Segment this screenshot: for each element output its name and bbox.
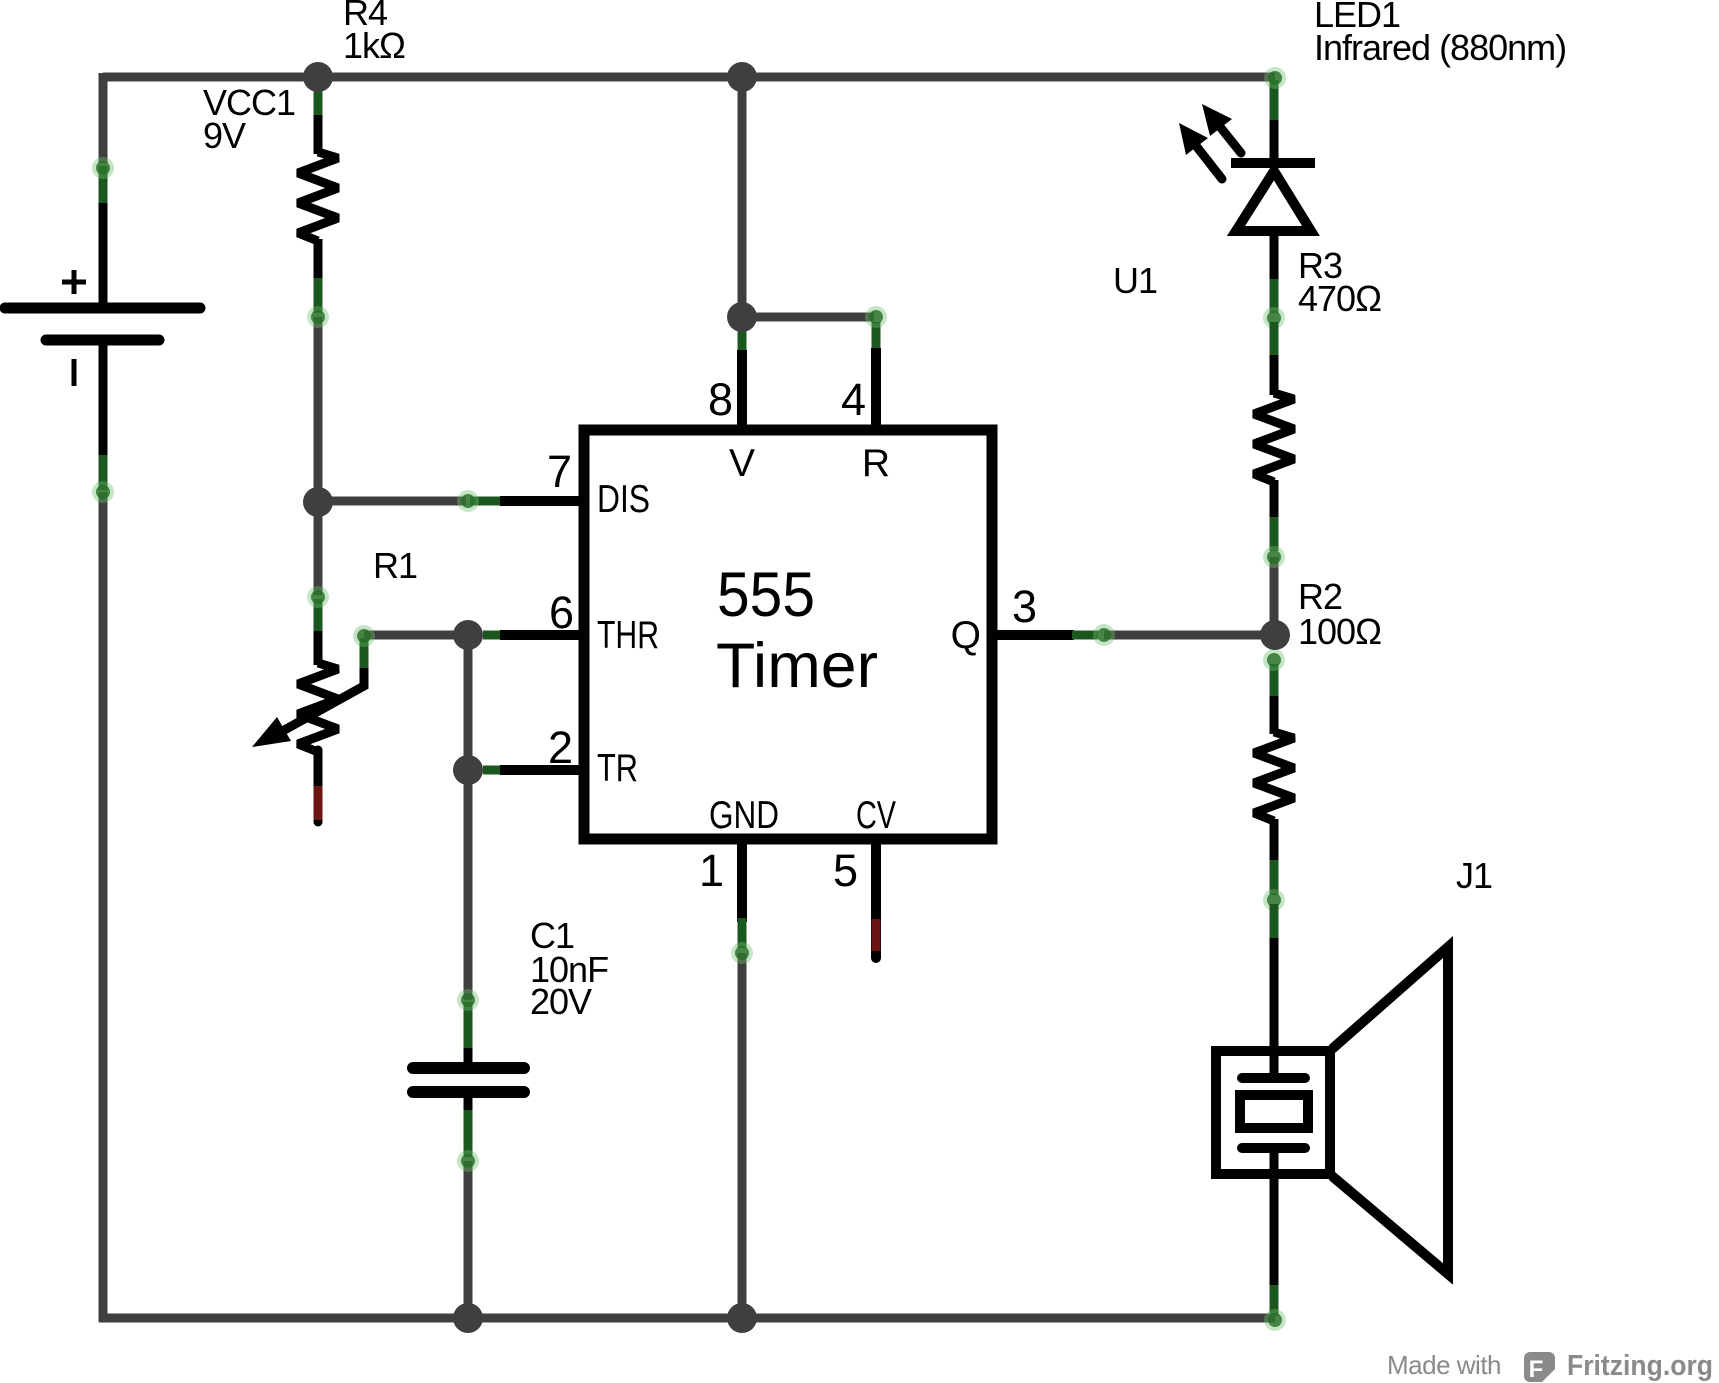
node: R2 bottom pin — [1263, 889, 1285, 911]
svg-text:U1: U1 — [1113, 260, 1157, 301]
speaker J1 (piezo buzzer) — [1216, 904, 1448, 1316]
svg-text:8: 8 — [708, 374, 733, 425]
wire: top power rail — [103, 73, 1275, 82]
junction: top rail / pin 8 branch — [727, 62, 757, 92]
wire: bottom ground rail — [99, 1314, 1275, 1323]
svg-text:6: 6 — [549, 587, 574, 638]
svg-text:1: 1 — [699, 845, 724, 896]
wire: Q pin 3 to R2 junction — [1104, 631, 1275, 640]
svg-text:Q: Q — [951, 614, 981, 657]
wire: R4 bottom to DIS junction — [314, 317, 323, 502]
node: R1 wiper pin — [353, 625, 375, 647]
node: LED1 top pin at rail corner — [1264, 67, 1286, 89]
label R2 100Ω — [1298, 576, 1381, 652]
resistor R4 — [298, 88, 338, 313]
wire: node to pin 4 — [742, 313, 874, 322]
svg-text:J1: J1 — [1456, 855, 1492, 896]
node: R3 bottom pin — [1263, 546, 1285, 568]
svg-text:CV: CV — [856, 794, 896, 837]
pin 8 V — [708, 330, 755, 485]
resistor R2 — [1254, 664, 1294, 895]
pin 1 GND — [699, 794, 779, 948]
wire: THR junction down to TR junction — [464, 635, 473, 770]
label C1 10nF 20V — [530, 915, 608, 1022]
svg-text:4: 4 — [841, 374, 866, 425]
node: C1 top pin — [457, 989, 479, 1011]
svg-text:R: R — [862, 442, 890, 485]
node: C1 bottom pin — [457, 1150, 479, 1172]
capacitor C1 — [413, 1002, 524, 1157]
svg-text:DIS: DIS — [597, 478, 650, 521]
wire: TR junction down to C1 top — [464, 770, 473, 1000]
svg-text:7: 7 — [547, 446, 572, 497]
pin 6 THR — [483, 587, 659, 657]
potentiometer R1 (rheostat) — [252, 599, 364, 822]
node: pin 4 wire end — [865, 306, 887, 328]
svg-text:Made with: Made with — [1387, 1350, 1501, 1380]
pin 3 Q — [951, 581, 1098, 657]
label J1 — [1456, 855, 1492, 896]
IC U1: 555 timer body — [584, 430, 992, 839]
svg-text:100Ω: 100Ω — [1298, 611, 1381, 652]
svg-text:GND: GND — [709, 794, 779, 837]
wire: top rail junction down to pins 8/4 node — [738, 77, 747, 317]
label R3 470Ω — [1298, 245, 1381, 319]
label R1 — [373, 545, 417, 586]
svg-text:5: 5 — [833, 845, 858, 896]
LED1 emission arrow upper — [1202, 104, 1241, 153]
svg-text:20V: 20V — [530, 981, 592, 1022]
junction: pins 8-4 node — [727, 302, 757, 332]
junction: THR node — [453, 620, 483, 650]
label VCC1 9V — [203, 82, 295, 156]
junction: DIS node — [303, 487, 333, 517]
pin 2 TR — [483, 722, 638, 790]
battery VCC1 9V — [5, 166, 200, 490]
wire: left rail top segment (battery +) — [99, 73, 108, 163]
wire: R1 wiper to THR junction — [364, 631, 468, 640]
svg-text:Fritzing.org: Fritzing.org — [1567, 1350, 1713, 1382]
svg-text:9V: 9V — [203, 115, 246, 156]
svg-text:1kΩ: 1kΩ — [343, 25, 405, 66]
footer: Made with Fritzing.org — [1387, 1350, 1713, 1383]
label U1 — [1113, 260, 1157, 301]
svg-text:Timer: Timer — [716, 631, 878, 701]
node: R2 top pin — [1263, 649, 1285, 671]
node: battery + terminal — [92, 157, 114, 179]
svg-text:R1: R1 — [373, 545, 417, 586]
LED LED1 — [1231, 80, 1315, 313]
junction: ground rail / C1 — [453, 1303, 483, 1333]
junction: Q / R2 / R3 node — [1260, 620, 1290, 650]
svg-text:F: F — [1529, 1356, 1544, 1383]
node: LED1 bottom / R3 top — [1263, 307, 1285, 329]
label R4 1kΩ — [343, 0, 405, 66]
node: DIS wire end — [457, 490, 479, 512]
pin 4 R — [841, 322, 890, 485]
svg-text:555: 555 — [717, 560, 815, 630]
wire: R3 bottom to R2 junction — [1270, 557, 1279, 637]
wire: DIS junction down to R1 top — [314, 502, 323, 595]
svg-text:2: 2 — [548, 722, 573, 773]
svg-text:3: 3 — [1012, 581, 1037, 632]
node: R4 bottom pin — [307, 306, 329, 328]
svg-text:TR: TR — [597, 747, 638, 790]
node: J1 bottom pin at rail — [1264, 1309, 1286, 1331]
junction: ground rail / GND pin — [727, 1303, 757, 1333]
svg-text:Infrared (880nm): Infrared (880nm) — [1314, 27, 1566, 68]
label LED1 Infrared (880nm) — [1314, 0, 1566, 68]
node: R1 top pin — [307, 586, 329, 608]
pin 5 CV (unconnected) — [833, 794, 896, 958]
node: GND pin end — [731, 942, 753, 964]
wire: left rail bottom segment (battery - to bottom rail) — [99, 492, 108, 1322]
junction: TR node — [453, 755, 483, 785]
LED1 emission arrow lower — [1179, 123, 1222, 179]
svg-text:470Ω: 470Ω — [1298, 278, 1381, 319]
node: Q wire end — [1093, 624, 1115, 646]
resistor R3 — [1254, 322, 1294, 551]
svg-text:THR: THR — [597, 614, 659, 657]
svg-text:V: V — [729, 442, 755, 485]
pin 7 DIS — [470, 446, 650, 521]
node: battery - terminal — [92, 481, 114, 503]
wire: C1 bottom to ground rail — [464, 1161, 473, 1318]
wire: DIS junction to DIS pin — [318, 497, 466, 506]
junction: top rail / R4 — [303, 62, 333, 92]
wire: GND pin 1 to ground rail — [738, 953, 747, 1318]
